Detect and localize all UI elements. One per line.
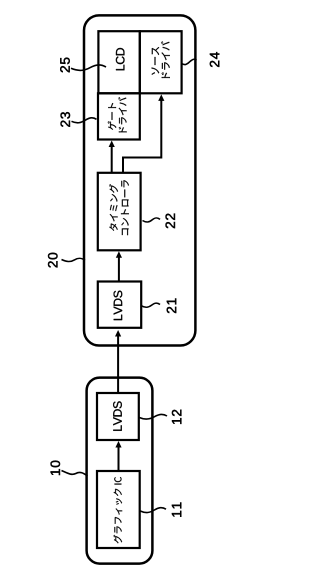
label LCD bbox=[116, 48, 125, 70]
label graphic IC (グラフィック IC) bbox=[113, 477, 122, 543]
LCD panel block 25 bbox=[98, 31, 139, 93]
leader tilde for 25 bbox=[71, 65, 106, 70]
source driver block 24 bbox=[140, 31, 182, 93]
graphic IC block 11 bbox=[97, 471, 140, 548]
label LVDS (block 21) bbox=[114, 291, 123, 320]
wire: timing controller 22 to gate driver 23 bbox=[111, 147, 113, 173]
reference numeral 20 bbox=[48, 253, 58, 268]
leader tilde for 24 bbox=[182, 59, 197, 64]
wire: LVDS 12 to LVDS 21 (crosses both module frames) bbox=[117, 336, 119, 393]
LVDS receiver block 21 bbox=[98, 282, 141, 328]
reference numeral 23 bbox=[61, 112, 70, 127]
leader tilde for 10 bbox=[62, 471, 88, 477]
reference numeral 11 bbox=[172, 503, 181, 517]
leader tilde for 12 bbox=[139, 414, 167, 419]
gate driver block 23 bbox=[98, 93, 140, 139]
leader tilde for 21 bbox=[142, 303, 161, 307]
host module frame 10 bbox=[87, 378, 153, 564]
wire: timing controller 22 to source driver 24 (elbow path) bbox=[123, 100, 161, 173]
wire: LVDS 21 to timing controller 22 bbox=[118, 257, 120, 281]
reference numeral 10 bbox=[51, 461, 61, 475]
reference numeral 25 bbox=[60, 58, 69, 73]
reference numeral 24 bbox=[210, 52, 219, 67]
leader tilde for 11 bbox=[140, 508, 166, 513]
label LVDS (block 12) bbox=[113, 401, 122, 430]
reference numeral 22 bbox=[166, 214, 175, 228]
leader tilde for 22 bbox=[143, 218, 161, 222]
timing controller block 22 bbox=[98, 173, 141, 251]
reference numeral 21 bbox=[167, 299, 176, 314]
leader tilde for 23 bbox=[72, 118, 97, 123]
wire: graphic IC 11 to LVDS 12 bbox=[118, 447, 120, 471]
label source driver (ソース ドライバ) bbox=[152, 41, 170, 78]
label timing controller (タイミング コントローラ) bbox=[109, 180, 129, 235]
reference numeral 12 bbox=[172, 410, 181, 424]
display module frame 20 bbox=[84, 15, 195, 345]
leader tilde for 20 bbox=[62, 258, 86, 261]
LVDS transmitter block 12 bbox=[97, 393, 139, 440]
label gate driver (ゲート ドライバ) bbox=[108, 97, 127, 132]
